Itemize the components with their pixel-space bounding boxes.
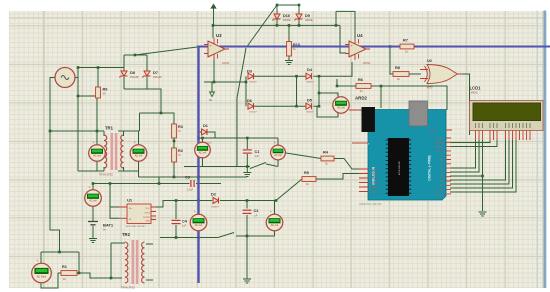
wire: mid vertical x=237 — [236, 98, 238, 167]
wire: diagonal from D10 top to blue node — [247, 5, 277, 47]
svg-text:AC mA: AC mA — [199, 152, 207, 155]
ground below battery — [89, 239, 97, 243]
svg-text:AC mA: AC mA — [271, 224, 279, 227]
svg-text:VOUT: VOUT — [144, 212, 150, 214]
diode D6 — [248, 103, 254, 109]
svg-text:DIGITAL (~PWM): DIGITAL (~PWM) — [428, 155, 432, 180]
capacitor C1 — [243, 149, 252, 151]
wire: TR1 secondary rails — [118, 130, 140, 132]
op-amp U3 — [208, 41, 225, 57]
svg-text:50: 50 — [103, 92, 106, 96]
wire: blue bus vertical — [197, 47, 199, 284]
svg-text:R9: R9 — [103, 88, 108, 92]
svg-text:uF: uF — [255, 215, 258, 218]
wire: R6 to Arduino top — [371, 86, 447, 110]
meter M6 AC amps — [85, 190, 102, 207]
svg-text:R7: R7 — [403, 39, 408, 43]
wire: R8 to U2 input — [409, 73, 421, 75]
wire: meter M5 leads — [198, 201, 200, 215]
wire: meter M3 top lead — [277, 138, 279, 146]
zener diode D7 — [144, 71, 150, 76]
meter M8 AC volts — [266, 214, 283, 231]
svg-text:ACPL-063L-TR-250LT: ACPL-063L-TR-250LT — [126, 225, 147, 228]
svg-text:D2: D2 — [211, 193, 216, 197]
Arduino board ARD2 — [368, 110, 446, 201]
svg-text:D9: D9 — [305, 14, 310, 18]
svg-text:+: + — [270, 210, 272, 214]
wire: TR1 primary top rail — [50, 130, 104, 132]
svg-text:ARDUINO UNO R3: ARDUINO UNO R3 — [359, 202, 382, 206]
svg-text:TR2: TR2 — [122, 232, 131, 237]
wire: node row y=113 to R3 — [140, 113, 175, 124]
wire: R10 bottom lead to ground — [288, 56, 290, 60]
capacitor C2 — [243, 209, 252, 211]
wire: rail y=237.5 with switch — [160, 237, 218, 239]
svg-text:1N4007: 1N4007 — [306, 112, 314, 114]
svg-text:0.1uF: 0.1uF — [187, 189, 194, 192]
wire: switch lever on mid rail — [250, 163, 266, 169]
svg-text:AC Volts: AC Volts — [37, 275, 47, 278]
wire: TR1 primary bottom rail — [78, 170, 104, 172]
svg-text:AC mA: AC mA — [195, 224, 203, 227]
resistor R9 — [96, 87, 101, 98]
svg-text:R6: R6 — [358, 78, 363, 82]
0v probe — [210, 92, 215, 97]
wire: AC source left lead / left trunk — [50, 78, 60, 253]
wire: R2 bottom to rail — [173, 162, 175, 177]
resistor R6 — [356, 84, 371, 89]
svg-text:PC3/ADC3: PC3/ADC3 — [369, 182, 380, 185]
svg-text:R5: R5 — [304, 171, 309, 175]
svg-text:1k: 1k — [325, 162, 328, 166]
wire: LCD VDD wire — [450, 140, 479, 172]
svg-text:D8: D8 — [130, 71, 135, 75]
svg-text:+: + — [198, 138, 200, 142]
ground below C1 — [243, 173, 251, 177]
Arduino right pin stubs — [446, 138, 451, 194]
svg-text:R1: R1 — [62, 265, 67, 269]
svg-text:7k: 7k — [178, 129, 181, 133]
gate U2 — [427, 65, 458, 84]
svg-text:TRAN-2P2S: TRAN-2P2S — [121, 287, 135, 290]
wire: secondary riser to node — [139, 113, 141, 131]
resistor R3 — [172, 124, 177, 138]
wire: R8 tap from blue line — [390, 47, 393, 75]
svg-text:PB5/SCK: PB5/SCK — [436, 138, 445, 140]
wire: U1 VCC wire to rail y=200.5 — [156, 201, 212, 208]
svg-text:1uF: 1uF — [255, 155, 260, 158]
svg-text:LCD1: LCD1 — [470, 86, 482, 91]
wire: R4 diagonal to meter M3 — [286, 153, 321, 159]
diode D3 — [248, 73, 254, 79]
svg-text:1k: 1k — [293, 47, 296, 51]
svg-text:1N4007: 1N4007 — [249, 82, 257, 84]
wire: ground stem below rail — [246, 236, 248, 279]
wire: bridge mid vertical 2 — [318, 76, 320, 106]
wire: C2 leads — [246, 201, 248, 209]
svg-text:+: + — [134, 141, 136, 145]
svg-text:D10: D10 — [283, 14, 290, 18]
wire: U3 V- lead to rail y=82 — [213, 57, 215, 82]
wire: LCD D4 wire — [450, 140, 506, 180]
transformer TR2 — [132, 240, 135, 284]
svg-text:AC mA: AC mA — [135, 155, 143, 158]
resistor R4 — [321, 156, 334, 161]
svg-text:ATMEGA328P: ATMEGA328P — [398, 160, 401, 175]
op-amp U4 — [349, 41, 366, 57]
wire: zener top rail — [124, 54, 147, 56]
svg-text:+: + — [274, 141, 276, 145]
ground below LCD — [479, 212, 487, 216]
svg-text:1k: 1k — [397, 77, 400, 81]
svg-text:IN-: IN- — [129, 219, 132, 221]
svg-text:DIODE: DIODE — [305, 19, 313, 22]
wire: D1 branch from blue bus — [199, 131, 202, 133]
sheet border (right edge) — [537, 11, 538, 289]
svg-text:AC mA: AC mA — [274, 154, 282, 157]
diode D1 — [202, 129, 208, 135]
wire: D5 output to meter M4 bottom — [314, 106, 339, 117]
ground below C2 rail — [243, 279, 251, 283]
Arduino left pin stubs A0-A5 — [359, 169, 368, 192]
wire: LCD D7 wire — [450, 140, 516, 192]
wire: C4 leads — [175, 201, 177, 220]
svg-text:TRAN-2P2S: TRAN-2P2S — [99, 174, 113, 177]
wire: R5 diagonal to node — [276, 179, 302, 201]
svg-text:AREF: AREF — [430, 129, 436, 132]
svg-text:C4: C4 — [182, 220, 188, 224]
resistor R2 — [172, 148, 177, 162]
wire: zener D8 branch — [123, 55, 125, 71]
wire: D9 leads — [298, 5, 300, 14]
wire: D10 leads — [276, 5, 278, 14]
svg-text:1k: 1k — [405, 50, 408, 54]
svg-text:D4: D4 — [307, 68, 313, 72]
svg-text:VCC: VCC — [146, 208, 151, 210]
svg-text:PC4/ADC4: PC4/ADC4 — [369, 186, 380, 189]
wire: bridge bottom rail — [254, 105, 306, 107]
wire: diagonal zener rail to U3 input — [135, 47, 197, 55]
svg-text:+: + — [36, 259, 38, 263]
svg-text:R3: R3 — [178, 125, 183, 129]
svg-text:R4: R4 — [323, 151, 329, 155]
svg-text:1N4007: 1N4007 — [211, 207, 219, 209]
svg-text:TR1: TR1 — [105, 126, 114, 131]
svg-text:D5: D5 — [307, 99, 312, 103]
battery BAT1 — [88, 222, 98, 225]
svg-text:1k: 1k — [306, 182, 309, 186]
svg-text:+: + — [92, 141, 94, 145]
wire: meter M9 leads — [202, 138, 204, 143]
svg-text:7k: 7k — [178, 153, 181, 157]
wire: stub rail177-rail183 link — [158, 177, 160, 184]
meter M5 AC amps — [190, 214, 207, 231]
wire: meter M4 to board stub — [349, 109, 366, 111]
svg-text:+: + — [194, 210, 196, 214]
wire: R10 top lead — [288, 25, 290, 41]
Arduino power jack — [362, 107, 376, 132]
svg-text:+: + — [336, 93, 338, 97]
svg-text:D6: D6 — [247, 99, 252, 103]
capacitor C4 — [172, 219, 181, 221]
svg-text:1uF: 1uF — [182, 225, 187, 228]
wire: R9 leads — [97, 68, 99, 88]
wire: supply branch to U4 minus input — [340, 25, 346, 53]
Arduino MCU chip — [388, 138, 409, 196]
wire: C3 right lead — [196, 183, 221, 185]
wire: zener bottom rail y=89 — [124, 89, 161, 113]
svg-text:U4: U4 — [357, 33, 363, 38]
svg-text:PD1/TXD: PD1/TXD — [436, 190, 445, 192]
svg-text:1k: 1k — [360, 89, 363, 93]
wire: battery to ground — [92, 226, 94, 238]
svg-text:PB2/SS: PB2/SS — [437, 151, 445, 153]
wire: meter M6 top lead — [92, 184, 94, 191]
wire: U2 output to LCD — [456, 74, 470, 135]
wire: TR2 primary loop — [110, 243, 112, 278]
diode D2 — [213, 198, 219, 204]
svg-text:C3: C3 — [185, 176, 190, 180]
diode D9 — [296, 14, 302, 19]
wire: AC source right lead riser — [75, 68, 124, 78]
svg-text:1N4007: 1N4007 — [249, 112, 257, 114]
wire: diagonal from blue node to mid vertical — [237, 48, 246, 98]
meter M1 AC amps (TR1 primary) — [89, 145, 106, 162]
wire: D10-D9 top rail y=5 — [277, 4, 299, 6]
svg-text:AC mA: AC mA — [337, 107, 345, 110]
svg-text:D1: D1 — [203, 124, 208, 128]
svg-text:PC5/ADC5: PC5/ADC5 — [369, 191, 380, 194]
svg-text:1N4148: 1N4148 — [130, 76, 139, 79]
svg-text:LM016L: LM016L — [470, 92, 479, 95]
svg-text:LM741: LM741 — [363, 62, 371, 65]
svg-text:D7: D7 — [153, 71, 158, 75]
power flag +V — [211, 4, 216, 8]
wire: branch into board top — [380, 86, 382, 108]
wire: R3-R2 junction — [173, 138, 175, 148]
Arduino chip pins — [386, 140, 411, 193]
meter M4 AC volts (bridge output) — [333, 97, 349, 113]
svg-text:PB4/MISO: PB4/MISO — [435, 143, 445, 145]
wire: bridge left vertical — [245, 76, 247, 106]
resistor R5 — [302, 177, 316, 182]
diode D5 — [306, 103, 312, 109]
wire: meter M6 to battery — [92, 207, 94, 222]
wire: R4 to Arduino A0 — [334, 159, 359, 170]
svg-text:D3: D3 — [247, 70, 252, 74]
wire: R6 left lead — [337, 79, 356, 86]
svg-text:4070: 4070 — [427, 87, 433, 90]
svg-text:ARD2: ARD2 — [355, 96, 368, 101]
svg-text:C1: C1 — [255, 150, 260, 154]
wire: rail y=177 — [139, 176, 248, 178]
wire: LCD VSS wire — [450, 140, 476, 168]
svg-text:AC mA: AC mA — [93, 155, 101, 158]
svg-text:FILTER: FILTER — [143, 217, 150, 219]
wire: output rail y=138 — [199, 137, 279, 139]
wire: LCD D6 wire — [450, 140, 513, 188]
wire: U3 V+ lead — [212, 25, 214, 38]
wire: supply rail y=11.4 to U4 V+ — [335, 11, 337, 25]
wire: bridge tap to meter M4 — [319, 93, 338, 97]
wire: LCD VEE wire — [450, 140, 483, 176]
diode D4 — [306, 73, 312, 79]
ground below R10 — [285, 61, 293, 65]
wire: TR2 secondary stubs — [146, 243, 153, 245]
diode D10 — [274, 14, 280, 19]
wire: +V arrow stem to supply rail y=25.4 — [213, 8, 215, 25]
LCD pin labels — [476, 123, 531, 128]
wire: meter M3 bottom lead — [277, 160, 279, 167]
AC source V1 — [55, 68, 75, 88]
optocoupler U1 — [127, 204, 151, 224]
resistor R10 — [287, 42, 292, 57]
meter M9 AC amps (on blue bus) — [195, 142, 211, 158]
wire: zener D7 branch — [146, 55, 148, 71]
svg-text:PC2/ADC2: PC2/ADC2 — [369, 177, 380, 180]
wire: R5 to Arduino A1 — [316, 174, 359, 180]
svg-text:R2: R2 — [178, 149, 183, 153]
svg-text:U3: U3 — [216, 33, 222, 38]
capacitor C3 — [190, 180, 192, 187]
svg-text:PC0/ADC0: PC0/ADC0 — [369, 168, 380, 171]
wire: meter M1 leads — [96, 98, 98, 145]
wire: blue bus horizontal — [197, 46, 550, 48]
zener diode D8 — [121, 71, 127, 76]
wire: bridge mid vertical 1 — [296, 76, 298, 106]
svg-text:9v: 9v — [103, 228, 106, 232]
svg-text:+: + — [88, 186, 90, 190]
svg-text:GND: GND — [146, 220, 151, 222]
wire: bottom-left meter loop — [41, 251, 79, 253]
meter M7 AC volts — [32, 263, 52, 283]
svg-text:PB3/MOSI: PB3/MOSI — [435, 147, 445, 149]
wire: 0v probe stem — [211, 82, 213, 92]
transformer TR1 — [111, 133, 114, 170]
wire: R1 node riser — [78, 252, 80, 273]
wire: U1 input wires — [110, 184, 119, 219]
wire: LCD D5 wire — [450, 140, 509, 184]
wire: D4 output to U4 V- column — [314, 62, 353, 76]
svg-text:LM741: LM741 — [222, 62, 230, 65]
wire: LCD ground stem — [482, 176, 484, 211]
svg-text:R10: R10 — [293, 43, 300, 47]
wire: rail y=183.5 — [93, 183, 190, 185]
wire: RS/E wires — [450, 140, 490, 143]
svg-text:AC mA: AC mA — [89, 200, 97, 203]
svg-text:1k: 1k — [63, 277, 66, 281]
wire: meter M8 leads — [274, 201, 276, 215]
wire: R1 leads — [58, 272, 61, 274]
svg-text:DIODE: DIODE — [283, 19, 291, 22]
wire: rail y=200.5 after D2 — [220, 200, 276, 202]
wire: meter M2 leads — [138, 131, 140, 145]
wire: switch lever — [218, 233, 234, 238]
svg-text:PD0/RXD: PD0/RXD — [435, 194, 444, 196]
wire: rail y=236 right part — [236, 235, 275, 237]
svg-text:1N4007: 1N4007 — [306, 82, 314, 84]
svg-text:C2: C2 — [254, 209, 259, 213]
wire: C1 top lead — [246, 138, 248, 149]
svg-text:BAT1: BAT1 — [103, 223, 114, 228]
wire: bridge top rail — [254, 75, 306, 77]
svg-text:R8: R8 — [395, 66, 400, 70]
svg-text:U2: U2 — [427, 59, 432, 63]
resistor R1 — [61, 271, 77, 276]
svg-text:0v: 0v — [209, 98, 213, 102]
svg-text:1N4148: 1N4148 — [153, 76, 162, 79]
wire: rail y=82 to bridge — [204, 81, 246, 83]
meter M3 AC volts — [271, 145, 286, 160]
Arduino left reset pin — [352, 142, 368, 144]
wire: mid rail y=166.5 — [184, 166, 250, 168]
resistor R7 — [400, 44, 414, 49]
meter M2 AC amps (TR1 secondary) — [130, 145, 147, 162]
resistor R8 — [393, 72, 409, 77]
wire: C1 bottom lead to ground — [246, 154, 248, 172]
svg-text:U1: U1 — [127, 198, 133, 203]
wire: supply rail y=25.4 — [213, 24, 340, 26]
LCD pin stubs — [476, 131, 531, 141]
Arduino USB connector — [409, 101, 428, 126]
svg-text:PC1/ADC1: PC1/ADC1 — [369, 173, 380, 176]
wire: D1 output jog to rail — [208, 132, 216, 138]
